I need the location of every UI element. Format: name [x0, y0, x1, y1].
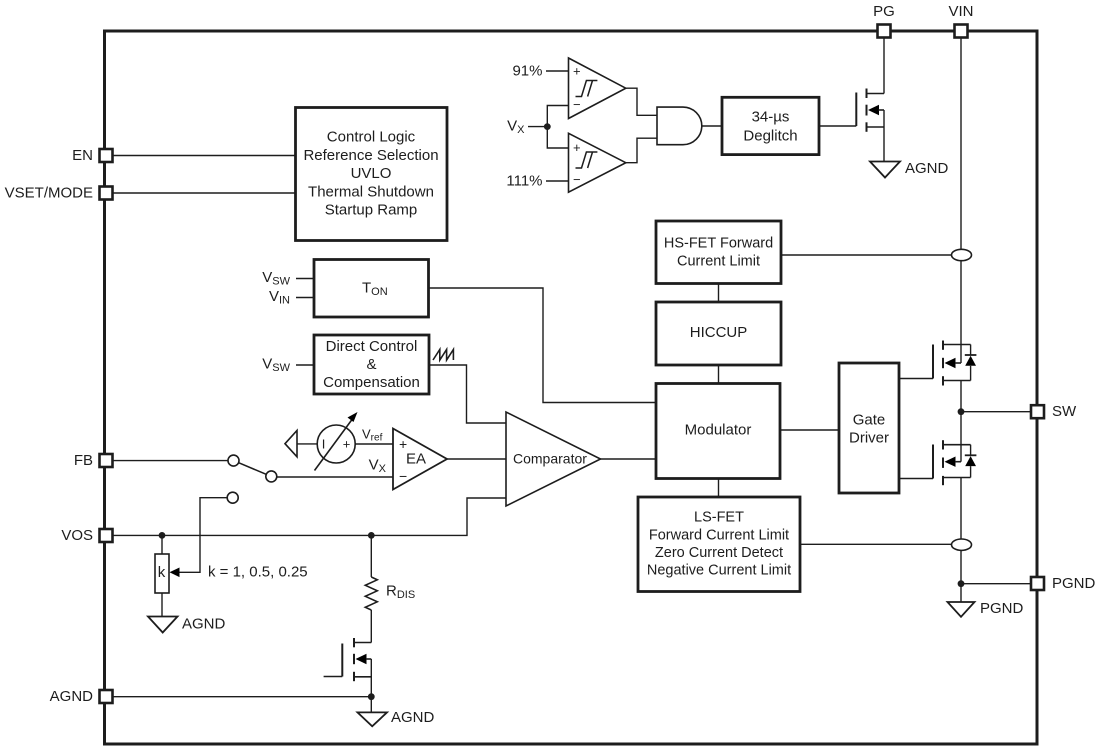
block: TON — [314, 260, 429, 318]
node on VOS line at RDIS — [368, 532, 375, 539]
svg-text:Forward Current Limit: Forward Current Limit — [649, 527, 789, 543]
svg-text:Gate: Gate — [853, 412, 886, 429]
svg-text:Modulator: Modulator — [685, 422, 752, 439]
switch contact FB side — [228, 455, 239, 466]
svg-text:Compensation: Compensation — [323, 374, 420, 391]
wire sense oval to Q2 drain — [960, 261, 962, 345]
pin EN — [72, 147, 112, 164]
svg-text:Comparator: Comparator — [513, 451, 587, 467]
svg-text:VOS: VOS — [61, 527, 93, 544]
svg-text:AGND: AGND — [50, 688, 94, 705]
svg-text:FB: FB — [74, 452, 93, 469]
svg-text:PGND: PGND — [1052, 575, 1096, 592]
svg-text:91%: 91% — [512, 63, 542, 80]
transistor Q1 (PG open-drain NMOS) — [856, 89, 884, 162]
wire Q2 source to SW node — [960, 381, 962, 412]
wire VIN to TON — [296, 297, 314, 299]
wire VSW to Direct Control — [296, 364, 314, 366]
current sense oval (LS) — [952, 539, 972, 550]
svg-text:Negative Current Limit: Negative Current Limit — [647, 563, 791, 579]
switch contact lower (to k divider) — [227, 492, 238, 503]
svg-text:k = 1, 0.5, 0.25: k = 1, 0.5, 0.25 — [208, 564, 308, 581]
wire VIN pin down to sense oval — [960, 38, 962, 250]
current sense oval (HS) — [952, 249, 972, 260]
wire Gate Driver to Q3 gate — [899, 478, 933, 480]
svg-text:PGND: PGND — [980, 600, 1024, 617]
wire LS-FET block to sense — [800, 543, 952, 545]
switch arm — [239, 463, 266, 475]
label Vref — [362, 427, 383, 444]
block: Modulator — [656, 384, 780, 479]
svg-text:Zero Current Detect: Zero Current Detect — [655, 545, 783, 561]
node PGND — [958, 580, 965, 587]
block: Direct Control & Compensation — [314, 335, 429, 394]
svg-text:+: + — [573, 63, 581, 78]
svg-text:PG: PG — [873, 3, 895, 20]
node VX junction — [544, 123, 551, 130]
label 91% — [512, 63, 542, 80]
label VIN input of TON — [269, 288, 290, 307]
wire Comparator output to Modulator — [601, 458, 657, 460]
comparator (main PWM comparator) — [506, 412, 601, 506]
block: LS-FET Forward Current Limit / Zero Current Detect / Negative Current Limit — [638, 497, 800, 592]
wire VOS pin to Comparator lower input — [112, 498, 506, 535]
svg-text:I: I — [322, 437, 326, 452]
wire k resistor to AGND — [161, 593, 163, 617]
svg-text:+: + — [399, 436, 407, 452]
wire AND gate to Deglitch — [702, 125, 722, 127]
svg-text:Driver: Driver — [849, 430, 889, 447]
wire current source to EA + input — [355, 443, 393, 445]
svg-text:AGND: AGND — [905, 160, 949, 177]
svg-text:HS-FET Forward: HS-FET Forward — [664, 235, 773, 251]
svg-text:LS-FET: LS-FET — [694, 510, 744, 526]
wire Gate Driver to Q2 gate — [899, 378, 933, 380]
svg-text:UVLO: UVLO — [351, 165, 392, 182]
wire PG pin to Q1 drain — [883, 38, 885, 94]
wire FB pin to switch — [112, 460, 228, 462]
wire sense oval to PGND node — [960, 550, 962, 584]
comparator U2 (PG upper threshold, with hysteresis) — [569, 58, 626, 119]
wire node to AGND symbol — [370, 697, 372, 713]
svg-text:AGND: AGND — [391, 709, 435, 726]
buffer arrow (left-pointing triangle at reference DAC) — [285, 431, 297, 457]
pin PG — [873, 3, 895, 38]
wire Modulator to Gate Driver — [780, 429, 839, 431]
label VSW input of Direct Control — [262, 356, 290, 375]
wire VSET/MODE pin to Control Logic — [112, 192, 296, 194]
svg-text:EA: EA — [406, 451, 426, 468]
wire 111% to comparator U3 - input — [546, 180, 569, 182]
label k = 1, 0.5, 0.25 — [208, 564, 308, 581]
wire U3 output to AND gate — [626, 138, 657, 163]
wire HICCUP to Modulator — [718, 365, 720, 384]
svg-text:SW: SW — [1052, 403, 1077, 420]
wire 91% to comparator U2 + input — [546, 70, 569, 72]
svg-text:34-µs: 34-µs — [752, 108, 790, 125]
wire HS-FET CL to VIN sense — [781, 254, 952, 256]
wire SW node to SW pin — [961, 411, 1031, 413]
svg-text:AGND: AGND — [182, 616, 226, 633]
pin AGND — [50, 688, 113, 705]
pin VOS — [61, 527, 112, 544]
wire VOS node to k resistor — [161, 535, 163, 554]
pin VSET/MODE — [5, 185, 113, 202]
op-amp EA (error amplifier) — [393, 429, 447, 490]
label VSW input of TON — [262, 269, 290, 288]
block: Gate Driver — [839, 363, 899, 493]
svg-text:HICCUP: HICCUP — [690, 324, 748, 341]
ground PGND — [948, 600, 1024, 617]
node SW — [958, 408, 965, 415]
block: HS-FET Forward Current Limit — [656, 221, 781, 284]
wire AGND pin line — [112, 696, 371, 698]
ground AGND below k — [148, 616, 226, 633]
wire EA output to Comparator — [447, 458, 506, 460]
wire RDIS to Q4 drain — [370, 610, 372, 643]
comparator U3 (PG lower threshold, with hysteresis) — [569, 133, 626, 192]
wire switch to EA - input — [277, 476, 393, 478]
wire U2 output to AND gate — [626, 88, 657, 115]
svg-text:−: − — [399, 468, 407, 484]
label VX node — [507, 118, 525, 137]
svg-text:111%: 111% — [506, 173, 542, 190]
wire switch lower contact to k arrow — [170, 498, 228, 577]
svg-text:VIN: VIN — [948, 3, 973, 20]
svg-text:−: − — [573, 172, 581, 187]
ground AGND below Q4 — [358, 709, 435, 726]
wire buffer arrow to current source — [297, 443, 317, 445]
sawtooth ramp symbol — [433, 350, 453, 361]
transistor Q2 (high-side power NMOS) — [933, 341, 971, 386]
block: Control Logic / Reference Selection / UVLO / Thermal Shutdown / Startup Ramp — [296, 108, 448, 241]
block: 34-us Deglitch — [722, 97, 819, 154]
svg-text:Direct Control: Direct Control — [326, 338, 418, 355]
wire Q3 source to sense oval (LS) — [960, 478, 962, 540]
wire VOS node to RDIS — [370, 535, 372, 577]
pin FB — [74, 452, 113, 469]
wire PGND node to ground symbol — [960, 584, 962, 602]
svg-text:VSET/MODE: VSET/MODE — [5, 185, 93, 202]
switch contact EA side — [266, 471, 277, 482]
resistor k (adjustable feedback divider) — [155, 554, 169, 593]
wire Modulator to LS-FET block — [718, 479, 720, 498]
svg-text:Control Logic: Control Logic — [327, 129, 416, 146]
ground AGND below Q1 — [870, 160, 949, 178]
node on VOS line at k divider — [159, 532, 166, 539]
wire HS-FET CL to HICCUP — [718, 284, 720, 303]
pin VIN — [948, 3, 973, 38]
wire PGND node to PGND pin — [961, 583, 1031, 585]
wire VSW to TON — [296, 278, 314, 280]
wire Deglitch to Q1 gate — [819, 125, 856, 127]
svg-text:&: & — [366, 356, 376, 373]
svg-text:Current Limit: Current Limit — [677, 253, 760, 269]
AND gate (PG window detect) — [657, 107, 702, 145]
svg-text:+: + — [343, 437, 351, 452]
wire EN pin to Control Logic — [112, 155, 296, 157]
node Q4 source on AGND line — [368, 693, 375, 700]
svg-text:k: k — [158, 564, 166, 581]
body diode of Q3 — [965, 445, 977, 478]
wire VX to comparator bus — [528, 106, 569, 149]
svg-text:Thermal Shutdown: Thermal Shutdown — [308, 183, 434, 200]
pin PGND — [1031, 575, 1096, 592]
current source I (variable, Vref DAC) — [315, 412, 358, 471]
pin SW — [1031, 403, 1077, 420]
label 111% — [506, 173, 542, 190]
svg-text:+: + — [573, 140, 581, 155]
label VX at EA input — [369, 457, 387, 476]
body diode of Q2 — [965, 345, 977, 381]
transistor Q4 (VOS discharge NMOS) — [324, 638, 372, 697]
svg-text:Reference Selection: Reference Selection — [303, 147, 438, 164]
transistor Q3 (low-side power NMOS) — [933, 440, 971, 485]
svg-text:−: − — [573, 97, 581, 112]
block: HICCUP — [656, 302, 781, 365]
svg-text:Startup Ramp: Startup Ramp — [325, 202, 418, 219]
svg-text:Deglitch: Deglitch — [743, 128, 797, 145]
wire TON output to Modulator — [429, 288, 657, 403]
resistor RDIS — [365, 577, 415, 610]
wire Direct Control output to Comparator upper input — [429, 365, 506, 423]
wire SW node to Q3 drain — [960, 412, 962, 445]
svg-text:EN: EN — [72, 147, 93, 164]
